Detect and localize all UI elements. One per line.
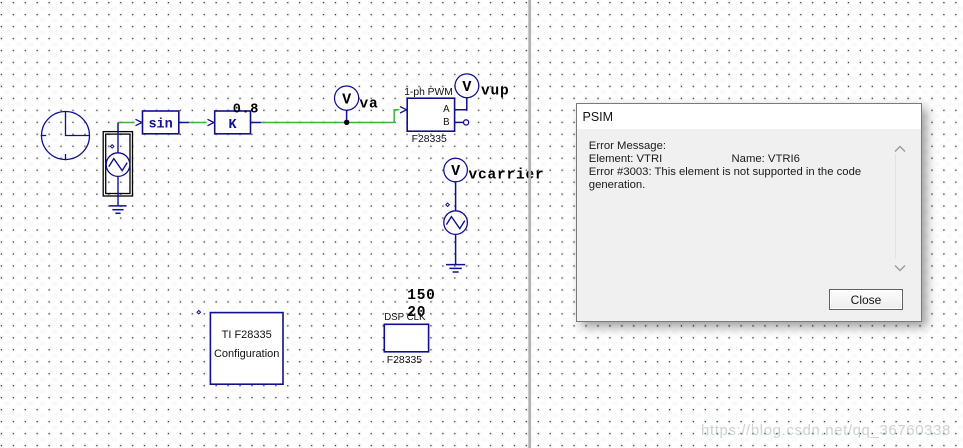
svg-text:DSP CLK: DSP CLK (384, 312, 426, 323)
dialog message line 4 (589, 179, 646, 191)
TI block terminal diamond (197, 311, 201, 314)
gain block K (215, 111, 251, 134)
watermark (701, 422, 951, 439)
wire: K output to PWM input (green, with bend) (251, 107, 407, 123)
svg-text:vcarrier: vcarrier (469, 167, 545, 183)
TI F28335 Configuration block (210, 313, 283, 385)
label vup (481, 84, 510, 100)
svg-text:V: V (451, 163, 460, 180)
PSIM error dialog (576, 103, 922, 322)
voltage probe vup (455, 74, 479, 98)
clock symbol (41, 112, 90, 161)
svg-text:vup: vup (481, 84, 510, 100)
dialog title bar (577, 104, 921, 129)
svg-text:B: B (443, 117, 449, 128)
voltage probe va (335, 86, 359, 120)
scrollbar track line (895, 154, 896, 259)
svg-text:150: 150 (407, 288, 435, 304)
triangle source VTRI6 (444, 211, 468, 235)
svg-text:TI F28335: TI F28335 (222, 329, 272, 341)
1-ph PWM block U1 (404, 87, 454, 131)
svg-text:0.8: 0.8 (233, 102, 259, 117)
svg-text:sin: sin (148, 117, 172, 132)
dialog message line 2 element (589, 153, 662, 165)
voltage source VSIN box (103, 132, 132, 196)
wire: source top to sin input (green) (118, 119, 142, 131)
svg-text:1-ph PWM: 1-ph PWM (404, 87, 453, 98)
svg-text:V: V (462, 79, 471, 96)
DSP clock value 150 (407, 288, 435, 304)
dialog message line 3 (589, 166, 861, 178)
ground (below VTRI) (446, 265, 465, 272)
wire: sin to K (179, 119, 214, 125)
wire: vcarrier probe to VTRI (455, 182, 457, 211)
voltage probe vcarrier (444, 158, 468, 182)
VTRI plus-terminal diamond (446, 203, 450, 206)
DSP clock value 20 (407, 305, 426, 321)
PWM block label F28335 (412, 134, 447, 145)
svg-text:K: K (229, 118, 238, 133)
scroll arrow down (894, 264, 906, 272)
svg-text:F28335: F28335 (387, 355, 422, 366)
dialog title PSIM (583, 110, 614, 124)
label va (360, 97, 379, 113)
VSIN internal wire (117, 132, 119, 206)
svg-text:A: A (443, 104, 450, 115)
VSIN plus-terminal diamond (110, 145, 114, 148)
DSP CLK block title (384, 312, 426, 323)
wire: PWM pin A to vup (455, 98, 467, 110)
PWM pin B open terminal (455, 120, 469, 125)
dialog message line 1 (589, 140, 666, 152)
ground (below VSIN) (109, 206, 126, 213)
svg-text:Configuration: Configuration (214, 348, 279, 360)
svg-text:va: va (360, 97, 379, 113)
junction node (va tap) (344, 120, 349, 125)
page boundary line (528, 0, 531, 448)
sin block (143, 111, 179, 134)
dialog message line 2 name (732, 153, 800, 165)
DSP CLK block label F28335 (387, 355, 422, 366)
scroll arrow up (894, 145, 906, 153)
DSP CLK block (384, 324, 428, 352)
VSIN sine source circle (106, 153, 130, 177)
svg-text:F28335: F28335 (412, 134, 447, 145)
wire: VTRI to ground (455, 234, 457, 264)
svg-text:V: V (342, 91, 351, 108)
label vcarrier (469, 167, 545, 183)
Close button (829, 289, 903, 311)
K value label 0.8 (233, 102, 259, 117)
